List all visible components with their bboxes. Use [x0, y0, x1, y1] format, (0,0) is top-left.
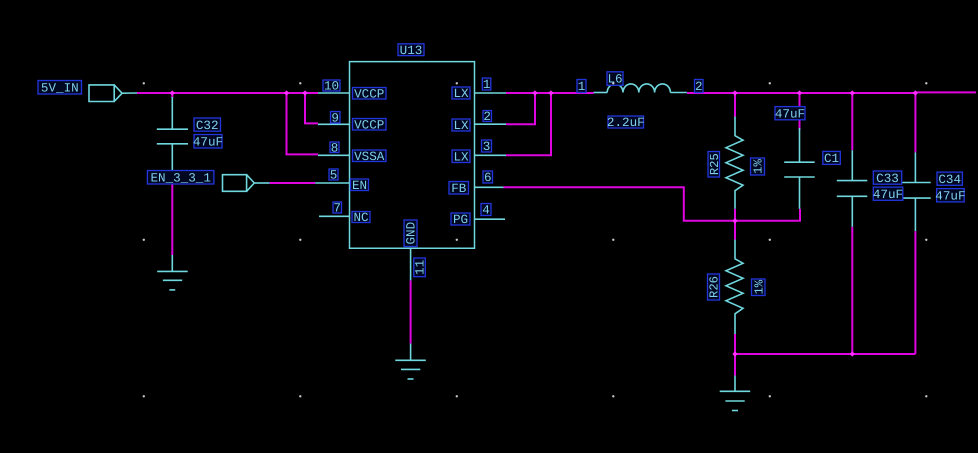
- svg-text:1: 1: [483, 78, 491, 92]
- svg-text:2: 2: [695, 80, 703, 94]
- svg-text:1%: 1%: [752, 159, 766, 174]
- svg-text:3: 3: [483, 140, 491, 154]
- svg-text:1: 1: [578, 80, 586, 94]
- svg-text:7: 7: [333, 202, 341, 216]
- svg-text:LX: LX: [453, 87, 469, 101]
- svg-text:EN_3_3_1: EN_3_3_1: [150, 171, 210, 185]
- svg-text:C34: C34: [938, 173, 961, 187]
- svg-text:10: 10: [324, 80, 339, 94]
- svg-text:11: 11: [414, 260, 428, 275]
- svg-text:C1: C1: [824, 152, 839, 166]
- svg-text:R25: R25: [708, 153, 722, 175]
- svg-text:8: 8: [331, 141, 339, 155]
- svg-text:VCCP: VCCP: [354, 118, 384, 132]
- svg-text:47uF: 47uF: [775, 107, 805, 121]
- svg-text:47uF: 47uF: [193, 135, 223, 149]
- svg-text:C32: C32: [196, 119, 219, 133]
- svg-text:2: 2: [483, 110, 491, 124]
- svg-text:LX: LX: [453, 119, 469, 133]
- svg-text:4: 4: [482, 204, 490, 218]
- svg-text:FB: FB: [451, 182, 467, 196]
- svg-text:NC: NC: [353, 211, 369, 225]
- svg-text:U13: U13: [400, 44, 423, 58]
- svg-text:VCCP: VCCP: [354, 87, 384, 101]
- svg-text:L6: L6: [607, 73, 622, 87]
- svg-text:GND: GND: [405, 222, 419, 245]
- svg-text:47uF: 47uF: [935, 189, 965, 203]
- svg-text:R26: R26: [708, 276, 722, 298]
- svg-text:C33: C33: [876, 172, 899, 186]
- svg-text:47uF: 47uF: [873, 188, 903, 202]
- svg-text:VSSA: VSSA: [354, 150, 385, 164]
- svg-text:PG: PG: [453, 213, 468, 227]
- svg-text:9: 9: [331, 111, 339, 125]
- svg-text:1%: 1%: [752, 279, 766, 294]
- svg-text:6: 6: [484, 171, 492, 185]
- svg-text:2.2uF: 2.2uF: [607, 116, 645, 130]
- svg-text:EN: EN: [352, 179, 367, 193]
- svg-text:5: 5: [330, 169, 338, 183]
- svg-text:5V_IN: 5V_IN: [41, 81, 79, 95]
- svg-text:LX: LX: [453, 150, 469, 164]
